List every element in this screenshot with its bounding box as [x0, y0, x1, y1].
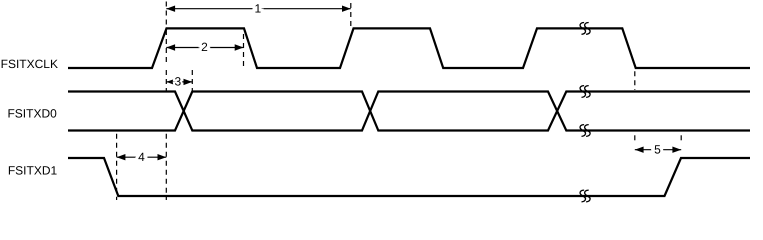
dimension 3 right arrowhead — [184, 79, 193, 85]
svg-text:2: 2 — [201, 40, 208, 54]
FSITXCLK break symbol — [580, 23, 590, 35]
dashed guide at D1 rise — [680, 135, 682, 144]
FSITXD0 bottom break symbol — [580, 125, 590, 137]
dimension 3 left arrowhead — [166, 79, 175, 85]
dashed guide at clock fall 3 lower — [634, 135, 636, 144]
dimension 5 left arrowhead — [635, 147, 644, 153]
dimension 3 arrow line — [166, 81, 192, 83]
FSITXD1 waveform — [68, 158, 750, 196]
svg-text:FSITXD0: FSITXD0 — [7, 107, 57, 121]
dimension 1 right arrowhead — [342, 6, 351, 12]
dimension 4 right arrowhead — [158, 154, 167, 160]
svg-text:FSITXD1: FSITXD1 — [8, 164, 58, 178]
dimension 4 arrow line — [117, 156, 167, 158]
svg-text:5: 5 — [654, 142, 661, 156]
dimension 1 left arrowhead — [166, 6, 175, 12]
dashed guide at clock fall 3 upper — [634, 71, 636, 90]
FSITXD0 bus rail B — [68, 92, 750, 131]
dashed guide at clock rise 1 lower — [165, 70, 167, 91]
dimension 2 arrow line — [166, 47, 243, 49]
dashed guide at clock rise 2 — [350, 3, 352, 28]
dashed guide at clock fall 1 — [243, 34, 245, 70]
dimension 2 right arrowhead — [235, 44, 244, 50]
FSITXD0 bus rail A — [68, 92, 750, 131]
dashed guide at D1 fall — [116, 134, 118, 200]
svg-text:FSITXCLK: FSITXCLK — [1, 57, 58, 71]
dimension 4 left arrowhead — [117, 154, 126, 160]
dimension 5 arrow line — [635, 149, 681, 151]
dashed guide at D0 transition end — [191, 70, 193, 91]
svg-text:1: 1 — [254, 1, 261, 15]
dimension 2 left arrowhead — [166, 44, 175, 50]
FSITXD0 top break symbol — [580, 86, 590, 98]
FSITXD1 break symbol — [580, 190, 590, 202]
FSITXCLK waveform — [68, 28, 750, 68]
svg-text:4: 4 — [138, 150, 145, 164]
dimension 5 right arrowhead — [672, 147, 681, 153]
dashed guide at clock rise 1 mid — [165, 30, 167, 66]
svg-text:3: 3 — [174, 75, 181, 89]
dimension 1 arrow line — [166, 8, 350, 10]
dashed guide at clock rise 1 bottom — [165, 134, 167, 200]
dashed guide at clock rise 1 upper — [165, 2, 167, 29]
